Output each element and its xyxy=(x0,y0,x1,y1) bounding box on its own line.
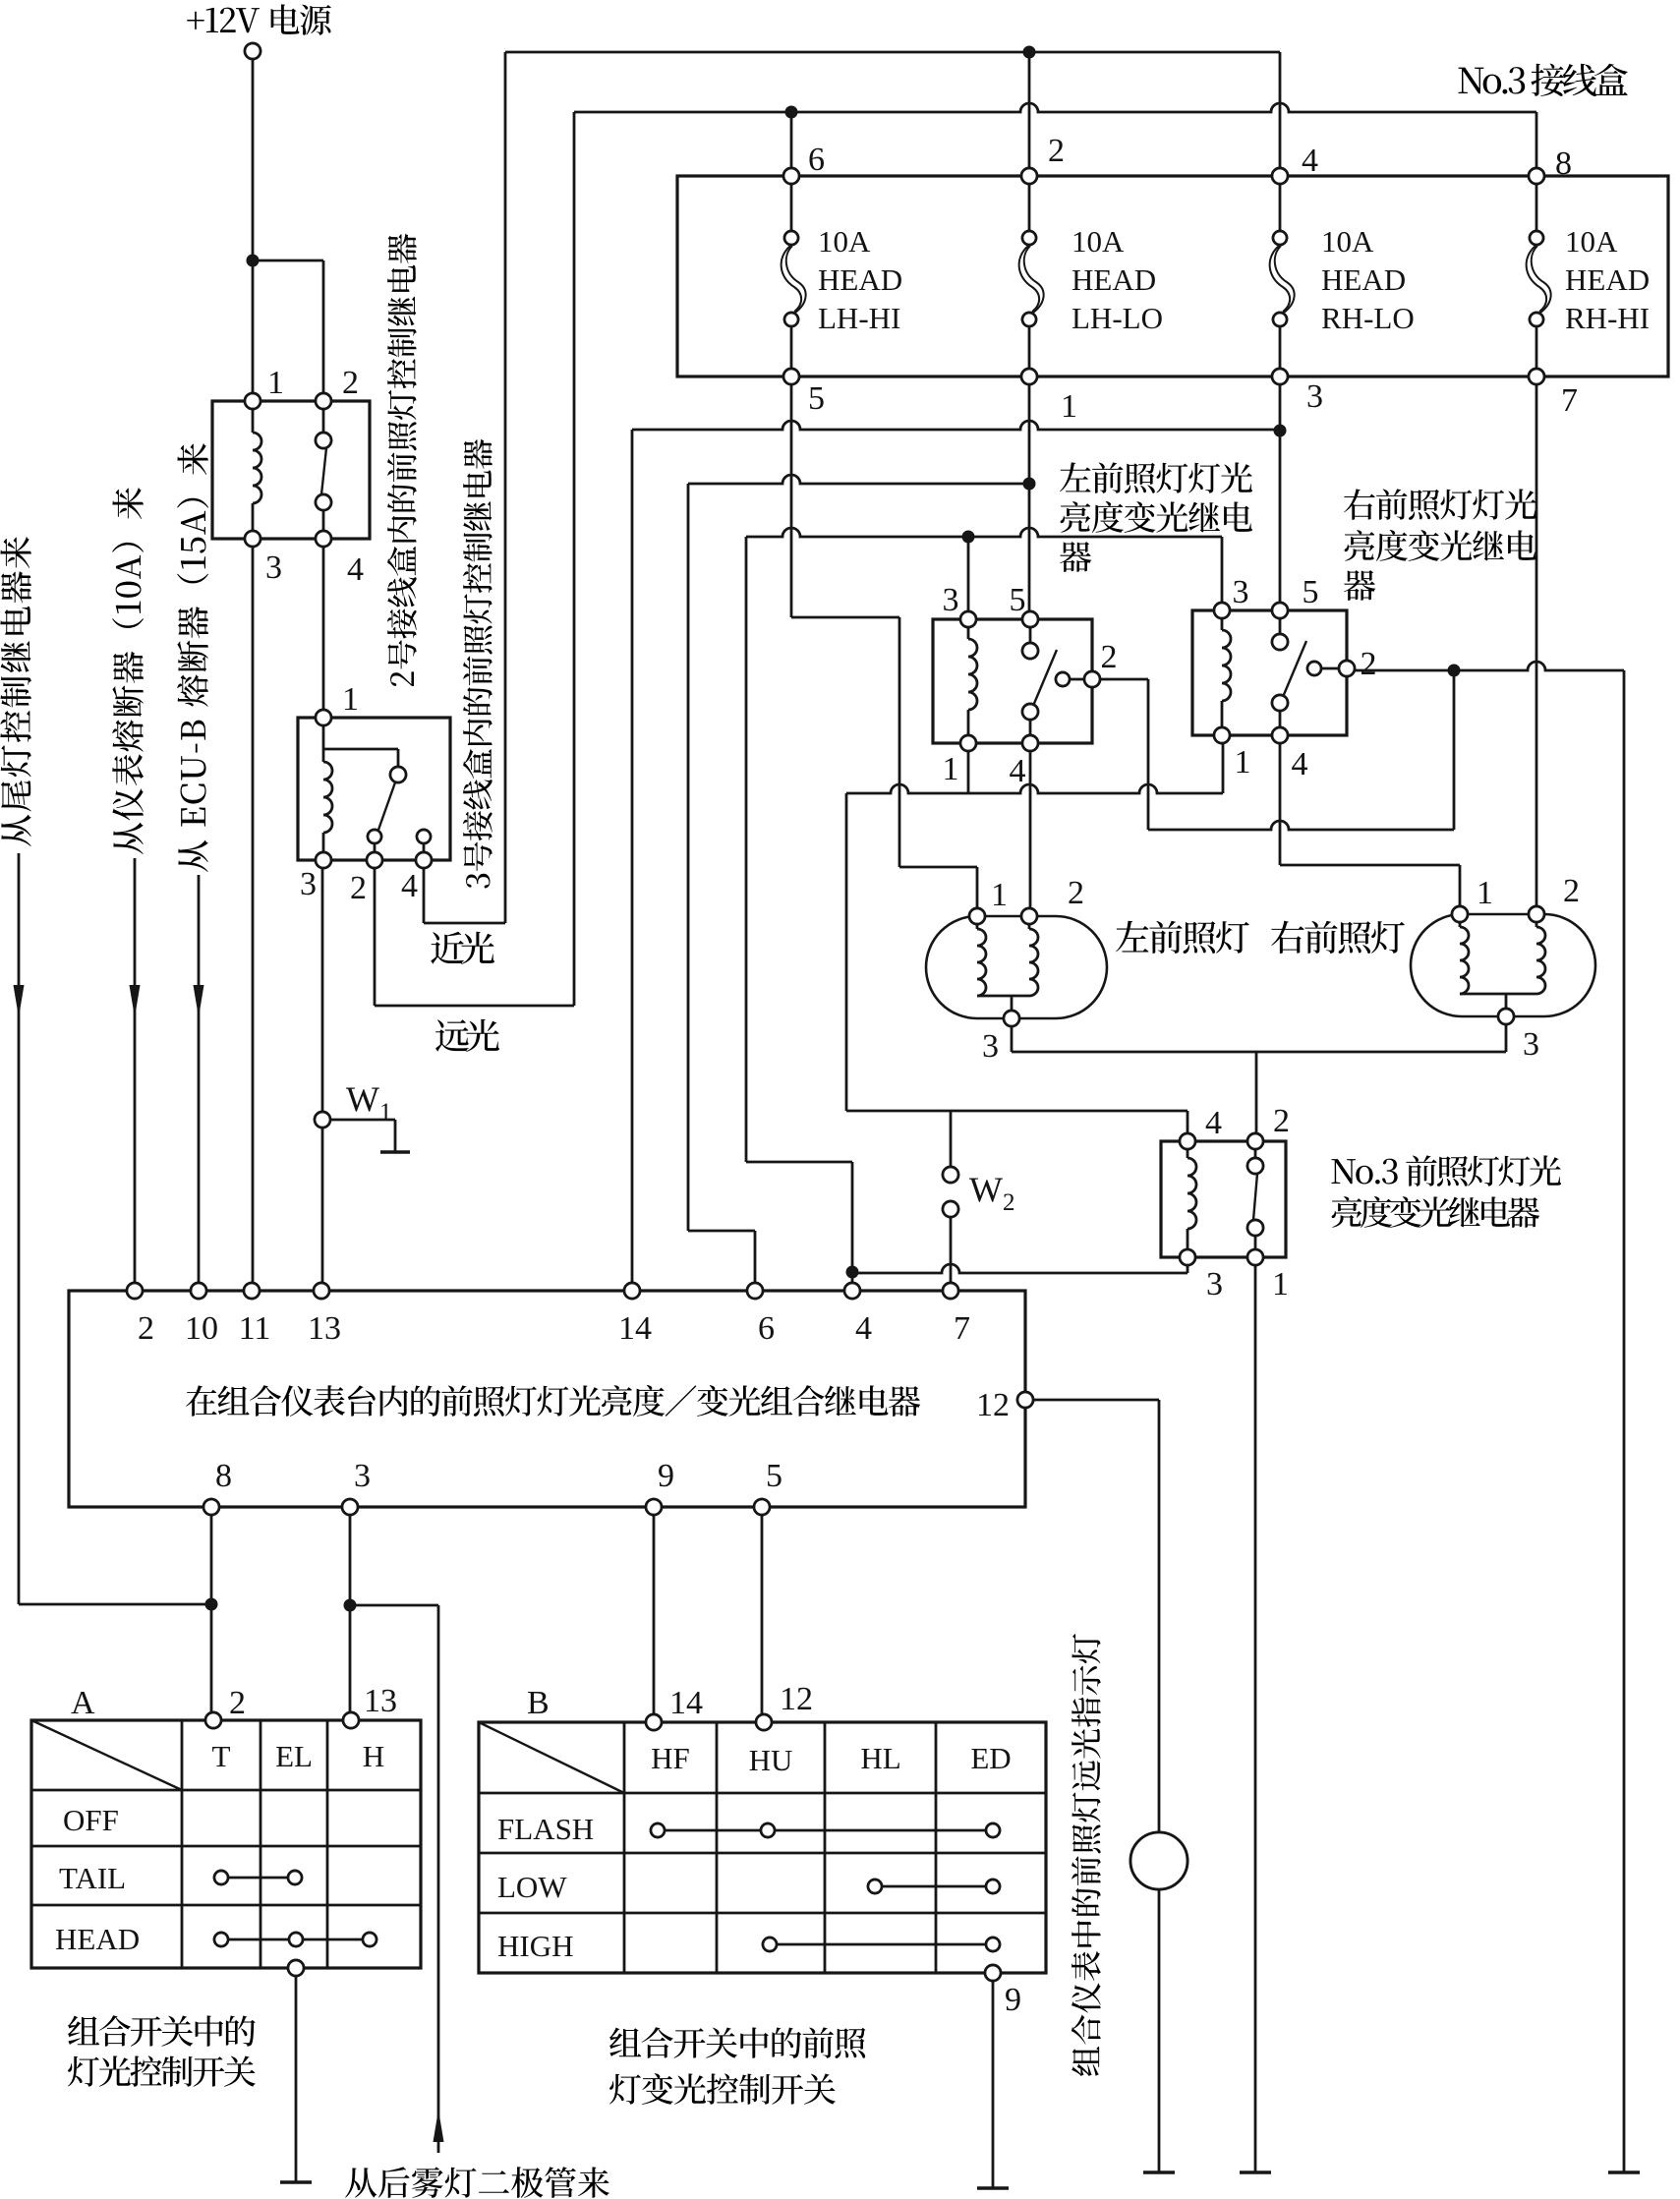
left headlamp high filament xyxy=(976,916,979,929)
svg-text:2: 2 xyxy=(1361,646,1377,682)
wire K1 pin4 to relay K2 pin1 xyxy=(322,539,325,718)
relay K1 pin circles xyxy=(245,393,261,409)
table B diagonal xyxy=(479,1722,624,1793)
svg-text:2: 2 xyxy=(342,365,359,401)
bus dimmer pin1 common xyxy=(846,784,1223,793)
right headlamp label xyxy=(1271,921,1303,954)
svg-text:10A: 10A xyxy=(818,224,871,259)
No.3 dimmer relay box xyxy=(1161,1141,1286,1257)
wire from tail light relay xyxy=(18,853,21,1604)
wire RH-LO fuse3 to right relay pin5 xyxy=(1279,376,1282,610)
svg-text:HIGH: HIGH xyxy=(497,1929,574,1963)
wire from meter fuse to box pin2 xyxy=(134,858,137,1291)
switch W2 xyxy=(950,1111,953,1167)
svg-text:7: 7 xyxy=(954,1310,970,1347)
fuse 10A HEAD LH-HI xyxy=(790,176,793,230)
wire pin12 to indicator xyxy=(1025,1399,1159,1402)
combo box top pin 14 xyxy=(624,1283,640,1299)
No.3 junction box xyxy=(677,176,1668,376)
bus pin14 to RH-LO xyxy=(632,421,1280,430)
relay K2 pin circles xyxy=(316,710,331,725)
right headlamp body xyxy=(1411,914,1595,1016)
label relay in No.3 junction box xyxy=(466,874,490,889)
svg-text:10A: 10A xyxy=(1072,224,1125,259)
svg-text:12: 12 xyxy=(780,1681,813,1717)
svg-text:TAIL: TAIL xyxy=(59,1861,126,1895)
arrow tail light wire xyxy=(14,985,25,1017)
wire right dimmer pin4 to lamp xyxy=(1279,735,1282,865)
No.3 dimmer relay label xyxy=(1331,1159,1356,1184)
svg-text:4: 4 xyxy=(1302,143,1318,179)
svg-text:3: 3 xyxy=(1306,378,1323,415)
bus pin6 to LH-LO xyxy=(688,475,1029,484)
label relay in No.2 junction box xyxy=(390,671,414,686)
combo box pin12 xyxy=(1017,1392,1033,1408)
right headlamp low filament xyxy=(1535,914,1538,927)
wire RH-HI fuse7 to right lamp pin2 xyxy=(1535,376,1538,914)
wire LH-LO fuse1 to left relay pin5 xyxy=(1028,376,1031,619)
svg-text:4: 4 xyxy=(347,551,364,588)
node low bus to LH-LO xyxy=(1023,46,1036,59)
table B ED output pin9 xyxy=(985,1965,1001,1981)
left headlamp label xyxy=(1116,921,1148,953)
label from tail-light control relay xyxy=(1,815,30,846)
svg-text:4: 4 xyxy=(1010,753,1026,789)
right headlamp pins xyxy=(1452,906,1468,922)
svg-text:5: 5 xyxy=(1303,574,1319,610)
svg-text:4: 4 xyxy=(401,868,418,904)
switch table A xyxy=(31,1720,421,1968)
combo box top pin 7 xyxy=(943,1283,958,1299)
svg-text:3: 3 xyxy=(354,1458,371,1494)
svg-text:2: 2 xyxy=(350,870,367,906)
right dimmer pin2 contact xyxy=(1307,662,1321,675)
table B FLASH contacts xyxy=(651,1823,665,1837)
svg-text:OFF: OFF xyxy=(63,1803,119,1837)
switch table B xyxy=(479,1722,1046,1973)
svg-text:4: 4 xyxy=(1292,746,1308,782)
svg-text:LOW: LOW xyxy=(497,1870,567,1904)
left dimmer switch xyxy=(1029,619,1032,643)
+12V terminal xyxy=(245,43,261,59)
svg-text:6: 6 xyxy=(808,142,825,178)
svg-text:2: 2 xyxy=(138,1310,154,1347)
svg-text:4: 4 xyxy=(855,1310,872,1347)
svg-text:2: 2 xyxy=(1563,873,1580,909)
wire drop to fuse8 xyxy=(1535,112,1538,176)
fuse 10A HEAD RH-HI xyxy=(1535,176,1538,230)
wire left dimmer pin1 stub xyxy=(967,743,970,793)
wire bus to right dimmer pin3 xyxy=(1221,537,1224,610)
label from rear fog diode xyxy=(345,2168,377,2197)
bus right dimmer pin2 to ground xyxy=(1347,662,1624,670)
right headlamp high filament xyxy=(1459,914,1462,927)
svg-text:12: 12 xyxy=(976,1387,1010,1423)
svg-text:HEAD: HEAD xyxy=(55,1922,140,1956)
high beam label xyxy=(435,1019,469,1052)
label light control switch xyxy=(68,2016,99,2046)
svg-text:LH-LO: LH-LO xyxy=(1072,301,1163,335)
svg-text:LH-HI: LH-HI xyxy=(818,301,900,335)
wire right dimmer pin1 riser xyxy=(1222,735,1225,793)
wire combo pin6 riser xyxy=(687,484,690,1231)
wire table B pin9 to ground xyxy=(992,1981,995,2188)
svg-text:1: 1 xyxy=(1061,388,1077,425)
low beam label xyxy=(431,932,464,964)
wire fog diode branch xyxy=(350,1604,438,1607)
node pin8 tail junction xyxy=(205,1598,218,1611)
label dimmer control switch xyxy=(609,2028,641,2057)
ground W1 xyxy=(380,1150,410,1154)
table A pin2 xyxy=(205,1712,221,1728)
svg-text:13: 13 xyxy=(308,1310,341,1347)
svg-text:13: 13 xyxy=(364,1683,397,1719)
ground right bus xyxy=(1608,2170,1640,2174)
relay K1 coil xyxy=(252,401,255,433)
svg-text:EL: EL xyxy=(275,1739,313,1773)
svg-text:HU: HU xyxy=(749,1743,793,1777)
left dimmer relay label xyxy=(1060,462,1091,492)
right dimmer relay box xyxy=(1192,610,1347,735)
wire No3 pin1 to ground xyxy=(1254,1257,1257,2172)
ground table A xyxy=(280,2180,312,2184)
top low-beam bus xyxy=(505,51,1280,54)
relay K2 switch xyxy=(390,767,406,782)
combo box bottom pin 5 xyxy=(754,1499,770,1515)
combo box top pin 13 xyxy=(314,1283,329,1299)
table B LOW contacts xyxy=(868,1880,882,1893)
left headlamp filament common xyxy=(977,995,1029,998)
right dimmer relay label xyxy=(1344,489,1375,519)
high beam wire (yuan guang) xyxy=(374,860,377,1006)
low beam wire (jin guang) xyxy=(423,860,426,923)
left headlamp body xyxy=(926,916,1107,1018)
svg-text:RH-LO: RH-LO xyxy=(1321,301,1415,335)
table A EL output pin xyxy=(288,1960,304,1976)
svg-text:RH-HI: RH-HI xyxy=(1565,301,1650,335)
relay K2 switch feed xyxy=(323,748,398,751)
wire table A EL to ground xyxy=(295,1976,298,2182)
wire K1 pin3 to combo box pin11 xyxy=(252,539,255,1291)
wire bus drop to No3 dimmer pin2 xyxy=(1255,1052,1258,1141)
combo box top pin 4 xyxy=(844,1283,860,1299)
wire drop to fuse4 xyxy=(1279,52,1282,176)
svg-text:14: 14 xyxy=(669,1685,703,1721)
No.3 junction box label xyxy=(1459,68,1484,94)
arrow meter fuse wire xyxy=(130,985,141,1017)
table A HEAD contacts xyxy=(214,1933,228,1946)
svg-text:FLASH: FLASH xyxy=(497,1812,594,1846)
combo box bottom pin 9 xyxy=(646,1499,662,1515)
svg-text:2: 2 xyxy=(229,1685,246,1721)
wire combo pin4 riser xyxy=(745,537,748,1162)
wire drop to fuse6 xyxy=(790,112,793,176)
wire drop to fuse2 xyxy=(1028,52,1031,176)
svg-text:2: 2 xyxy=(1273,1103,1290,1139)
node LH-LO tap xyxy=(1023,478,1036,491)
left dimmer coil xyxy=(967,619,970,639)
node +12V branch xyxy=(247,255,260,267)
left dimmer relay box xyxy=(933,619,1092,743)
svg-text:5: 5 xyxy=(1010,582,1026,618)
bus pin4 to dimmer coils xyxy=(746,528,1222,537)
svg-text:2: 2 xyxy=(1048,133,1065,169)
left headlamp pins xyxy=(969,908,985,924)
svg-text:8: 8 xyxy=(1555,145,1572,182)
svg-text:14: 14 xyxy=(618,1310,652,1347)
svg-text:3: 3 xyxy=(300,866,317,902)
left dimmer pin circles xyxy=(960,611,976,627)
right dimmer switch xyxy=(1279,610,1282,634)
relay K1 switch xyxy=(322,401,325,433)
wire branch to K1 pin2 xyxy=(253,260,323,262)
combo box top pin 2 xyxy=(127,1283,143,1299)
right headlamp filament common xyxy=(1460,993,1536,996)
left dimmer pin2 contact xyxy=(1056,672,1070,686)
svg-text:HEAD: HEAD xyxy=(1072,262,1156,297)
wire tail-light line join xyxy=(19,1603,211,1606)
svg-text:9: 9 xyxy=(1005,1982,1021,2018)
svg-text:3: 3 xyxy=(1233,574,1249,610)
svg-text:H: H xyxy=(363,1739,384,1773)
svg-text:T: T xyxy=(212,1739,231,1773)
top high-beam bus xyxy=(574,103,1536,112)
svg-text:ED: ED xyxy=(970,1741,1011,1775)
relay K1 box xyxy=(212,401,370,539)
svg-text:3: 3 xyxy=(982,1028,999,1065)
svg-text:7: 7 xyxy=(1561,382,1578,419)
table A TAIL contacts xyxy=(214,1871,228,1884)
svg-text:8: 8 xyxy=(215,1458,232,1494)
label from meter fuse 10A xyxy=(113,823,143,854)
svg-text:11: 11 xyxy=(239,1310,271,1347)
svg-text:2: 2 xyxy=(1068,875,1084,911)
svg-text:1: 1 xyxy=(1235,744,1251,781)
table A diagonal xyxy=(31,1720,182,1790)
svg-text:1: 1 xyxy=(1477,875,1493,911)
svg-text:10: 10 xyxy=(185,1310,218,1347)
label indicator lamp xyxy=(1072,2047,1099,2076)
svg-text:5: 5 xyxy=(808,380,825,417)
combo box bottom pin 8 xyxy=(203,1499,219,1515)
No.3 dimmer pin circles xyxy=(1180,1133,1195,1149)
svg-text:2: 2 xyxy=(1101,639,1118,675)
node RH-LO tap xyxy=(1274,425,1287,437)
wire right ground drop xyxy=(1623,670,1626,2172)
svg-text:A: A xyxy=(71,1685,95,1721)
ground indicator xyxy=(1143,2170,1175,2174)
svg-text:HEAD: HEAD xyxy=(818,262,902,297)
combo box top pin 11 xyxy=(244,1283,260,1299)
svg-text:B: B xyxy=(527,1685,550,1721)
right dimmer pin circles xyxy=(1214,603,1230,618)
ground No3 pin1 xyxy=(1240,2170,1271,2174)
node bus to left dimmer pin3 xyxy=(962,531,975,544)
svg-text:HL: HL xyxy=(860,1741,900,1775)
svg-text:1: 1 xyxy=(991,877,1008,913)
wire combo pin3 to table A pin13 xyxy=(349,1507,352,1720)
svg-text:10A: 10A xyxy=(1321,224,1374,259)
combo relay box xyxy=(69,1291,1025,1507)
svg-text:HEAD: HEAD xyxy=(1565,262,1650,297)
wire +12V down to relay K1 pin1 xyxy=(252,59,255,401)
wire combo pin8 to switch table A xyxy=(210,1507,213,1720)
right dimmer coil xyxy=(1221,610,1224,630)
svg-text:3: 3 xyxy=(1523,1026,1539,1063)
svg-text:1: 1 xyxy=(1272,1266,1289,1302)
svg-text:3: 3 xyxy=(1206,1266,1223,1302)
svg-text:1: 1 xyxy=(342,681,359,718)
+12V power source label xyxy=(187,12,203,29)
No.3 dimmer switch xyxy=(1254,1141,1257,1158)
combo box top pin 6 xyxy=(747,1283,763,1299)
node pin3 fog junction xyxy=(344,1599,357,1612)
relay K2 coil xyxy=(322,718,325,762)
node dimmer pin2 junction xyxy=(1448,665,1461,677)
switch W1 xyxy=(315,1112,330,1128)
node high bus to LH-HI xyxy=(785,106,798,119)
wire LH-HI fuse5 to left lamp pin1 xyxy=(790,376,793,617)
combo box bottom pin 3 xyxy=(342,1499,358,1515)
relay K2 box xyxy=(298,718,450,860)
node combo pin4 riser xyxy=(846,1266,859,1279)
wire combo pin14 riser xyxy=(631,430,634,1291)
fuse 10A HEAD LH-LO xyxy=(1028,176,1031,230)
bus W2 line xyxy=(846,1110,1188,1113)
wire No3 pin3 to combo pin4 node xyxy=(1187,1257,1189,1273)
wire K2 pin3 to combo box pin13 xyxy=(321,860,324,1291)
svg-text:3: 3 xyxy=(265,550,282,586)
wire lamp ground bus xyxy=(1011,1018,1014,1052)
wire W2 line to No3 dimmer pin4 xyxy=(1187,1111,1189,1141)
svg-text:3: 3 xyxy=(943,582,959,618)
wire combo pin9 to table B pin14 xyxy=(653,1507,656,1722)
svg-text:10A: 10A xyxy=(1565,224,1618,259)
wire left dimmer pin2 link xyxy=(1092,678,1148,681)
left headlamp low filament xyxy=(1028,916,1031,929)
arrow ECU-B wire xyxy=(194,985,204,1017)
svg-text:6: 6 xyxy=(758,1310,775,1347)
No.3 dimmer coil xyxy=(1187,1141,1189,1158)
wire combo pin5 to table B pin12 xyxy=(761,1507,764,1722)
svg-text:1: 1 xyxy=(267,365,284,401)
combo box top pin 10 xyxy=(191,1283,206,1299)
label from ECU-B fuse 15A xyxy=(178,840,207,872)
terminal circle overlays xyxy=(245,43,261,59)
fuse 10A HEAD RH-LO xyxy=(1279,176,1282,230)
table B HIGH contacts xyxy=(763,1938,777,1951)
combo relay label xyxy=(186,1385,217,1416)
svg-text:5: 5 xyxy=(766,1458,782,1494)
svg-text:1: 1 xyxy=(943,751,959,787)
svg-text:4: 4 xyxy=(1205,1105,1222,1141)
svg-text:HF: HF xyxy=(651,1741,690,1775)
wire from ECU-B fuse to box pin10 xyxy=(198,875,201,1291)
wire left dimmer pin4 to lamp pin2 xyxy=(1029,743,1032,916)
high-beam indicator lamp xyxy=(1130,1832,1188,1889)
wire bus down to W2 line xyxy=(845,793,848,1111)
svg-text:HEAD: HEAD xyxy=(1321,262,1406,297)
table B pin14 xyxy=(646,1714,662,1730)
arrow from rear fog diode xyxy=(434,2110,444,2142)
ground table B xyxy=(977,2186,1009,2190)
svg-text:9: 9 xyxy=(658,1458,674,1494)
wire stub to left dimmer pin3 xyxy=(967,537,970,619)
